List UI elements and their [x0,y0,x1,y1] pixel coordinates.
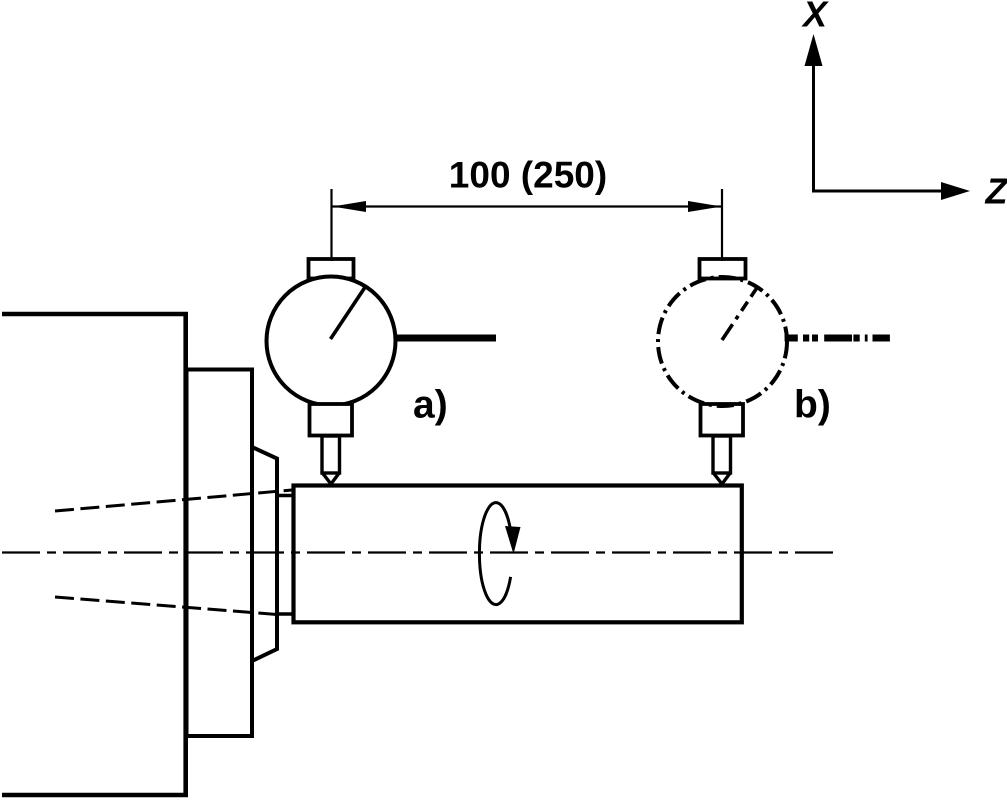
svg-text:X: X [801,0,829,35]
dial indicator b) contact tip [714,474,730,485]
svg-text:a): a) [413,384,448,427]
dial indicator a) cap [309,259,354,279]
dial indicator b) needle (phantom) [722,287,758,341]
dial indicator a) needle [331,285,367,339]
spindle flange [187,370,253,737]
dimension arrow left [333,201,367,212]
axis Z arrow [812,190,943,193]
svg-text:Z: Z [985,171,1007,212]
dimension extension line left [330,189,332,261]
dial indicator b) cap [700,259,746,279]
dial indicator b) plunger [713,436,731,473]
hidden taper bottom dashed line [55,597,277,615]
dial indicator a) mounting rod [395,335,496,342]
svg-text:b): b) [794,384,831,427]
dimension arrow right [688,201,722,212]
workpiece cylinder [294,486,742,623]
stub cylinder bottom line [277,612,294,616]
rotation arrowhead [505,526,521,554]
dial indicator b) stem [701,404,744,436]
headstock housing [2,314,186,795]
dial indicator a) dial face [267,277,396,406]
spindle centerline [2,551,836,553]
chuck nose [252,447,277,661]
hidden taper top dashed line [55,490,292,511]
dial indicator a) plunger [322,436,340,473]
dial indicator a) stem [310,404,353,436]
svg-text:100 (250): 100 (250) [449,154,607,195]
stub cylinder top line [277,494,294,498]
axis X arrow [812,63,815,193]
dial indicator b) mounting rod (phantom) [785,335,890,342]
dial indicator a) contact tip [323,474,339,485]
dimension line [333,205,723,207]
dimension extension line right [721,189,723,261]
dial indicator b) dial face (phantom) [658,277,787,406]
rotation arc [479,503,510,605]
